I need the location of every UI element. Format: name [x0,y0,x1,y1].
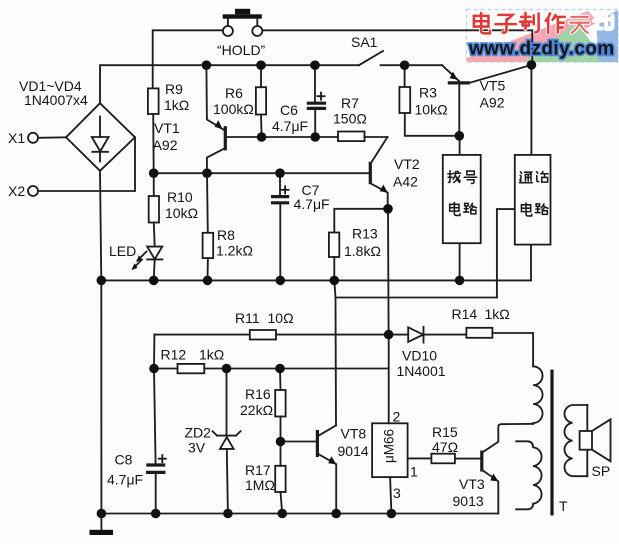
watermark pink triangle [467,11,598,62]
zener diode ZD2 [213,369,241,514]
svg-text:www.dzdiy.com: www.dzdiy.com [468,39,615,60]
svg-text:10kΩ: 10kΩ [415,102,448,118]
node: bus280 / LED [149,276,159,286]
LED diode [132,247,163,281]
resistor R9 [148,88,159,173]
node: mid bus / C7 [275,168,285,178]
node: mid bus / VT1 collector / R8 [202,168,212,178]
wire: ground bus bottom [101,513,498,515]
transformer T primary winding (top) [533,366,542,424]
svg-text:9014: 9014 [338,443,369,459]
svg-text:4.7μF: 4.7μF [272,118,308,134]
watermark blue triangle [596,10,618,62]
watermark background panel [467,10,619,63]
resistor R12 [154,364,389,373]
svg-text:A92: A92 [153,137,178,153]
node: top bus / VT1 emitter [202,60,212,70]
svg-text:3: 3 [393,485,401,501]
wire: VT2 emitter rail down to R11/VD10 node [387,209,390,335]
svg-text:R15: R15 [432,424,458,440]
resistor R7 [338,132,388,142]
wire: main top bus from bridge to SA1 [100,65,359,103]
node: R12 rail / R16 [275,364,285,374]
switch SA1 blade [359,51,383,65]
node: ground bus / R17 [277,509,287,519]
resistor R17 [275,442,285,514]
wire: R11 corner down to R12 rail [153,335,155,369]
svg-text:22kΩ: 22kΩ [240,402,273,418]
svg-text:A92: A92 [480,95,505,111]
svg-text:4.7μF: 4.7μF [294,196,330,212]
svg-text:μM66: μM66 [382,429,397,463]
node: R11 / VD10 / VT2 emitter rail / pin2 [384,330,394,340]
svg-text:R3: R3 [419,85,437,101]
svg-text:1kΩ: 1kΩ [164,97,189,113]
node: bus280 / R13 / VT8 collector rail [330,276,340,286]
resistor R16 [275,369,285,442]
svg-text:R14: R14 [452,306,478,322]
transformer secondary winding (right) [564,405,587,476]
node: top bus / R6 [256,60,266,70]
svg-text:C6: C6 [280,102,298,118]
node: ground bus / uM66 pin3 [387,509,397,519]
svg-text:4.7μF: 4.7μF [107,472,143,488]
resistor R3 [399,87,459,136]
speaker SP [580,405,611,476]
svg-text:SP: SP [592,463,611,479]
push button S (HOLD) [223,9,263,36]
node: R3 bottom / VT5 base / dial block [455,131,465,141]
transistor VT3 (9013) [482,424,533,514]
node: R12 rail / R11 corner / C8 [149,364,159,374]
node: C6 bottom / R7 line [310,132,320,142]
svg-text:SA1: SA1 [351,34,378,50]
svg-text:1kΩ: 1kΩ [485,306,510,322]
svg-text:1N4001: 1N4001 [397,363,446,379]
capacitor C7 [271,173,289,280]
wire: feedback line y=297.5 [335,297,497,299]
transistor VT1 (A92) [206,65,225,173]
wire: top HOLD loop left (button to R9 top) [153,30,223,88]
terminal X1 [28,133,66,143]
svg-text:R9: R9 [165,81,183,97]
node: ground bus / ZD2 [223,509,233,519]
svg-text:R11: R11 [235,310,260,326]
capacitor C6 [307,65,326,137]
node: VT1 base / R6 bottom [257,132,267,142]
watermark green triangle [524,22,605,62]
svg-text:LED: LED [109,243,136,259]
svg-text:R10: R10 [167,189,193,205]
node: bus280 / C7 [276,276,286,286]
node: top bus / R3 [400,60,410,70]
svg-text:C8: C8 [115,452,133,468]
svg-text:R13: R13 [352,226,378,242]
svg-text:T: T [559,498,568,514]
svg-text:R8: R8 [217,227,235,243]
diode VD10 [389,327,467,343]
transistor VT2 (A42) [370,137,387,209]
svg-text:3V: 3V [188,440,206,456]
label 拨号电路 [448,171,477,216]
node: VT5 collector / hold wire / talk block [527,60,537,70]
svg-text:R16: R16 [245,386,271,402]
wire: pin 3 of uM66 to ground bus [390,477,391,513]
node: bus280 / left rail [97,276,107,286]
svg-text:X2: X2 [8,183,25,199]
svg-text:A42: A42 [393,174,418,190]
svg-text:1.2kΩ: 1.2kΩ [216,243,253,259]
svg-text:1.8kΩ: 1.8kΩ [344,243,381,259]
wire: pin 1 of uM66 to R15 [408,457,432,459]
wire: left rail bridge bottom to ground [100,171,101,514]
svg-text:47Ω: 47Ω [432,439,458,455]
wire: bus y=280 [101,279,531,281]
svg-text:ZD2: ZD2 [185,425,212,441]
watermark text www.dzdiy.com [468,39,615,60]
wire: VT8 collector rail x=335.5 [334,280,336,425]
node: VT2 emitter / R13 [383,204,393,214]
transistor VT8 (9014) [281,425,337,513]
transistor VT5 (A92) [442,65,532,136]
wire: mid bus y=173 (VT1 collector rail to VT2 base) [154,172,371,174]
transformer T feedback winding (bottom) [516,441,541,509]
resistor R11 [154,330,388,340]
node: bus280 / R8 [203,276,213,286]
block 通话电路 (talk circuit) [497,65,551,298]
svg-text:10kΩ: 10kΩ [165,205,198,221]
svg-text:1N4007x4: 1N4007x4 [24,92,88,108]
wire: VT1 base line to R7 (with C6, R6 taps) [225,136,338,138]
resistor R14 [466,328,533,367]
label 通话电路 [520,172,549,216]
svg-text:1MΩ: 1MΩ [245,477,275,493]
wire: pin 2 of uM66 [388,335,390,424]
svg-text:VT3: VT3 [459,476,485,492]
node: ground bus / left rail [97,509,107,519]
svg-text:9013: 9013 [453,493,484,509]
svg-text:2: 2 [393,409,401,425]
IC U1 uM66 melody chip [372,423,408,477]
svg-text:VT5: VT5 [480,78,506,94]
svg-text:R12: R12 [161,347,187,363]
transformer core [550,370,553,516]
svg-text:R17: R17 [245,462,271,478]
node: mid bus / R9-R10 [149,168,159,178]
svg-text:R7: R7 [341,95,359,111]
svg-text:10Ω: 10Ω [268,310,294,326]
wire: SA1 right contact to VT5 emitter [381,64,442,66]
node: R12 rail / ZD2 [222,364,232,374]
svg-text:VT2: VT2 [394,156,420,172]
svg-text:“HOLD”: “HOLD” [217,42,266,58]
svg-text:100kΩ: 100kΩ [213,101,254,117]
resistor R8 [203,173,214,280]
node: ground bus / C8 [151,509,161,519]
terminal X2 [28,137,135,196]
ground symbol [90,514,114,536]
resistor R15 [431,454,481,464]
svg-text:R6: R6 [225,85,243,101]
node: ground bus / VT8 emitter [331,509,341,519]
resistor R13 [329,209,388,281]
node: bus280 / dial block bottom [455,276,465,286]
capacitor C8 [146,369,166,514]
svg-text:VT8: VT8 [341,426,367,442]
block 拨号电路 (dial circuit) [443,136,481,281]
wire: top HOLD loop right (button to VT5 collector node) [262,30,532,65]
svg-text:VD10: VD10 [402,348,437,364]
bridge rectifier VD1~VD4 [66,103,135,171]
node: top bus / C6 [310,60,320,70]
svg-text:1kΩ: 1kΩ [199,347,224,363]
svg-text:1: 1 [410,464,418,480]
resistor R6 [256,65,266,137]
svg-text:150Ω: 150Ω [333,111,367,127]
node: R16 / R17 / VT8 base [276,437,286,447]
svg-text:VT1: VT1 [154,120,180,136]
watermark text 电子制作天地 [474,13,613,33]
wire: R3 top stub [404,65,406,87]
svg-text:X1: X1 [8,130,25,146]
resistor R10 [149,173,159,246]
